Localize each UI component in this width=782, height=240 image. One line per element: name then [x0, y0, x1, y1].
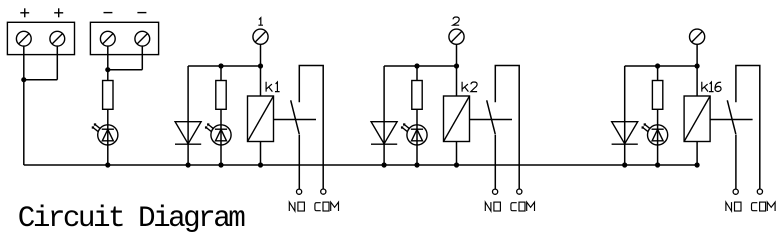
- junction diode/bottom rail section 1: [186, 162, 191, 167]
- terminal block J2 (− −): [90, 22, 158, 54]
- relay coil k16: [684, 96, 710, 142]
- mechanical linkage relay k1 to contact: [274, 119, 317, 121]
- relay contact switch section 3: [727, 66, 760, 190]
- bottom + supply rail: [24, 164, 697, 166]
- junction rail/resistor section 3: [655, 63, 660, 68]
- label NO (section 3): [726, 202, 741, 211]
- junction relay/bottom rail section 1: [258, 162, 263, 167]
- label COM (section 2): [511, 202, 535, 211]
- label − (J2-2): [137, 12, 146, 14]
- wire terminal to relay k2: [456, 44, 458, 96]
- power indicator LED: [92, 123, 118, 145]
- diode D1: [175, 122, 201, 145]
- wire terminal to relay k1: [260, 44, 262, 96]
- screw terminal J2-1 (−): [100, 31, 115, 46]
- mechanical linkage relay k16 to contact: [710, 119, 753, 121]
- junction relay/bottom rail section 2: [454, 162, 459, 167]
- label NO (section 2): [485, 202, 500, 211]
- COM terminal circle section 3: [757, 189, 762, 194]
- diode D2: [371, 122, 397, 145]
- resistor R2: [412, 81, 422, 110]
- relay contact switch section 1: [291, 66, 324, 190]
- wire relay k16 to bottom rail: [696, 142, 698, 166]
- input terminal (unnumbered) section 3: [690, 29, 705, 44]
- label k16: [702, 82, 721, 92]
- screw terminal J1-1 (+): [16, 31, 31, 46]
- junction relay/bottom rail section 3: [695, 162, 700, 167]
- label + (J1-1): [20, 8, 29, 17]
- label + (J1-2): [54, 8, 63, 17]
- label − (J2-1): [104, 12, 113, 14]
- title text: [18, 202, 243, 235]
- top rail section 3: [625, 65, 697, 67]
- label NO (section 1): [289, 202, 304, 211]
- resistor-LED branch wire section 1: [220, 66, 222, 165]
- junction − terminals: [105, 67, 110, 72]
- relay coil k1: [248, 96, 274, 142]
- wire + terminal down to bottom rail: [23, 46, 25, 165]
- LED indicator section 1: [205, 123, 231, 145]
- diode branch wire section 1: [187, 66, 189, 165]
- junction LED/bottom rail section 2: [414, 162, 419, 167]
- diode branch wire section 3: [624, 66, 626, 165]
- junction rail/resistor section 1: [218, 63, 223, 68]
- junction diode/bottom rail section 2: [382, 162, 387, 167]
- COM terminal circle section 1: [321, 189, 326, 194]
- wire joining + terminals: [24, 79, 58, 81]
- COM terminal circle section 2: [517, 189, 522, 194]
- resistor-LED branch wire section 3: [657, 66, 659, 165]
- pin number 2: [453, 17, 459, 25]
- top rail section 2: [384, 65, 456, 67]
- input terminal 1 section 1: [253, 29, 268, 44]
- NO terminal circle section 3: [733, 189, 738, 194]
- label COM (section 1): [315, 202, 339, 211]
- input terminal 2 section 2: [449, 29, 464, 44]
- NO terminal circle section 1: [297, 189, 302, 194]
- relay contact switch section 2: [487, 66, 520, 190]
- junction power LED/bottom rail: [105, 162, 110, 167]
- power indicator resistor: [103, 81, 113, 110]
- junction LED/bottom rail section 3: [655, 162, 660, 167]
- resistor R1: [216, 81, 226, 110]
- resistor R3: [652, 81, 662, 110]
- wire joining − terminals: [108, 69, 143, 71]
- wire relay k2 to bottom rail: [456, 142, 458, 166]
- wire from second + terminal: [56, 46, 58, 79]
- LED indicator section 2: [401, 123, 427, 145]
- diode branch wire section 2: [383, 66, 385, 165]
- top rail section 1: [188, 65, 260, 67]
- terminal block J1 (+ +): [7, 22, 74, 54]
- wire from second − terminal: [141, 46, 143, 69]
- junction + terminals: [21, 77, 26, 82]
- screw terminal J1-2 (+): [50, 31, 65, 46]
- wire terminal to relay k16: [696, 44, 698, 96]
- junction diode/bottom rail section 3: [622, 162, 627, 167]
- relay coil k2: [444, 96, 470, 142]
- junction terminal/rail section 2: [454, 63, 459, 68]
- junction rail/resistor section 2: [414, 63, 419, 68]
- pin number 1: [258, 18, 263, 26]
- diode D3: [612, 122, 638, 145]
- LED indicator section 3: [642, 123, 668, 145]
- screw terminal J2-2 (−): [135, 31, 150, 46]
- label k2: [462, 82, 477, 92]
- label k1: [266, 82, 280, 92]
- label COM (section 3): [752, 202, 776, 211]
- wire − terminal down through R/LED to bottom rail: [107, 46, 109, 165]
- junction LED/bottom rail section 1: [218, 162, 223, 167]
- junction terminal/rail section 1: [258, 63, 263, 68]
- mechanical linkage relay k2 to contact: [470, 119, 513, 121]
- wire relay k1 to bottom rail: [260, 142, 262, 166]
- resistor-LED branch wire section 2: [416, 66, 418, 165]
- junction terminal/rail section 3: [695, 63, 700, 68]
- NO terminal circle section 2: [493, 189, 498, 194]
